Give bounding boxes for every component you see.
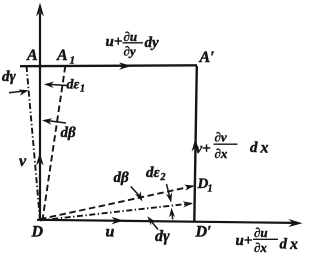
svg-text:D′: D′ bbox=[195, 224, 212, 241]
svg-text:v+: v+ bbox=[196, 141, 211, 157]
svg-text:A′: A′ bbox=[199, 49, 215, 66]
svg-text:dε: dε bbox=[67, 78, 80, 93]
svg-text:A: A bbox=[56, 47, 68, 64]
svg-text:x: x bbox=[289, 236, 298, 253]
svg-text:1: 1 bbox=[80, 84, 85, 95]
svg-text:dγ: dγ bbox=[2, 69, 17, 85]
svg-text:d: d bbox=[280, 237, 288, 253]
svg-text:∂y: ∂y bbox=[124, 44, 136, 59]
svg-text:d: d bbox=[250, 140, 258, 156]
svg-text:∂x: ∂x bbox=[254, 240, 267, 255]
svg-text:x: x bbox=[260, 140, 269, 157]
svg-text:∂u: ∂u bbox=[254, 225, 268, 240]
svg-text:dε: dε bbox=[146, 165, 161, 181]
svg-text:dβ: dβ bbox=[61, 125, 77, 141]
svg-text:1: 1 bbox=[208, 184, 213, 195]
svg-text:∂x: ∂x bbox=[215, 146, 228, 161]
svg-text:1: 1 bbox=[70, 55, 76, 67]
svg-text:u+: u+ bbox=[236, 233, 253, 249]
svg-text:dγ: dγ bbox=[155, 228, 170, 245]
svg-text:u+: u+ bbox=[106, 34, 123, 50]
svg-text:v: v bbox=[19, 153, 27, 170]
svg-text:dy: dy bbox=[145, 35, 160, 51]
svg-text:D: D bbox=[31, 224, 44, 241]
svg-text:u: u bbox=[106, 224, 115, 241]
svg-text:A: A bbox=[26, 47, 38, 64]
svg-text:∂u: ∂u bbox=[124, 29, 138, 44]
svg-text:2: 2 bbox=[160, 172, 166, 183]
svg-text:dβ: dβ bbox=[114, 170, 130, 186]
svg-text:∂v: ∂v bbox=[215, 130, 227, 145]
